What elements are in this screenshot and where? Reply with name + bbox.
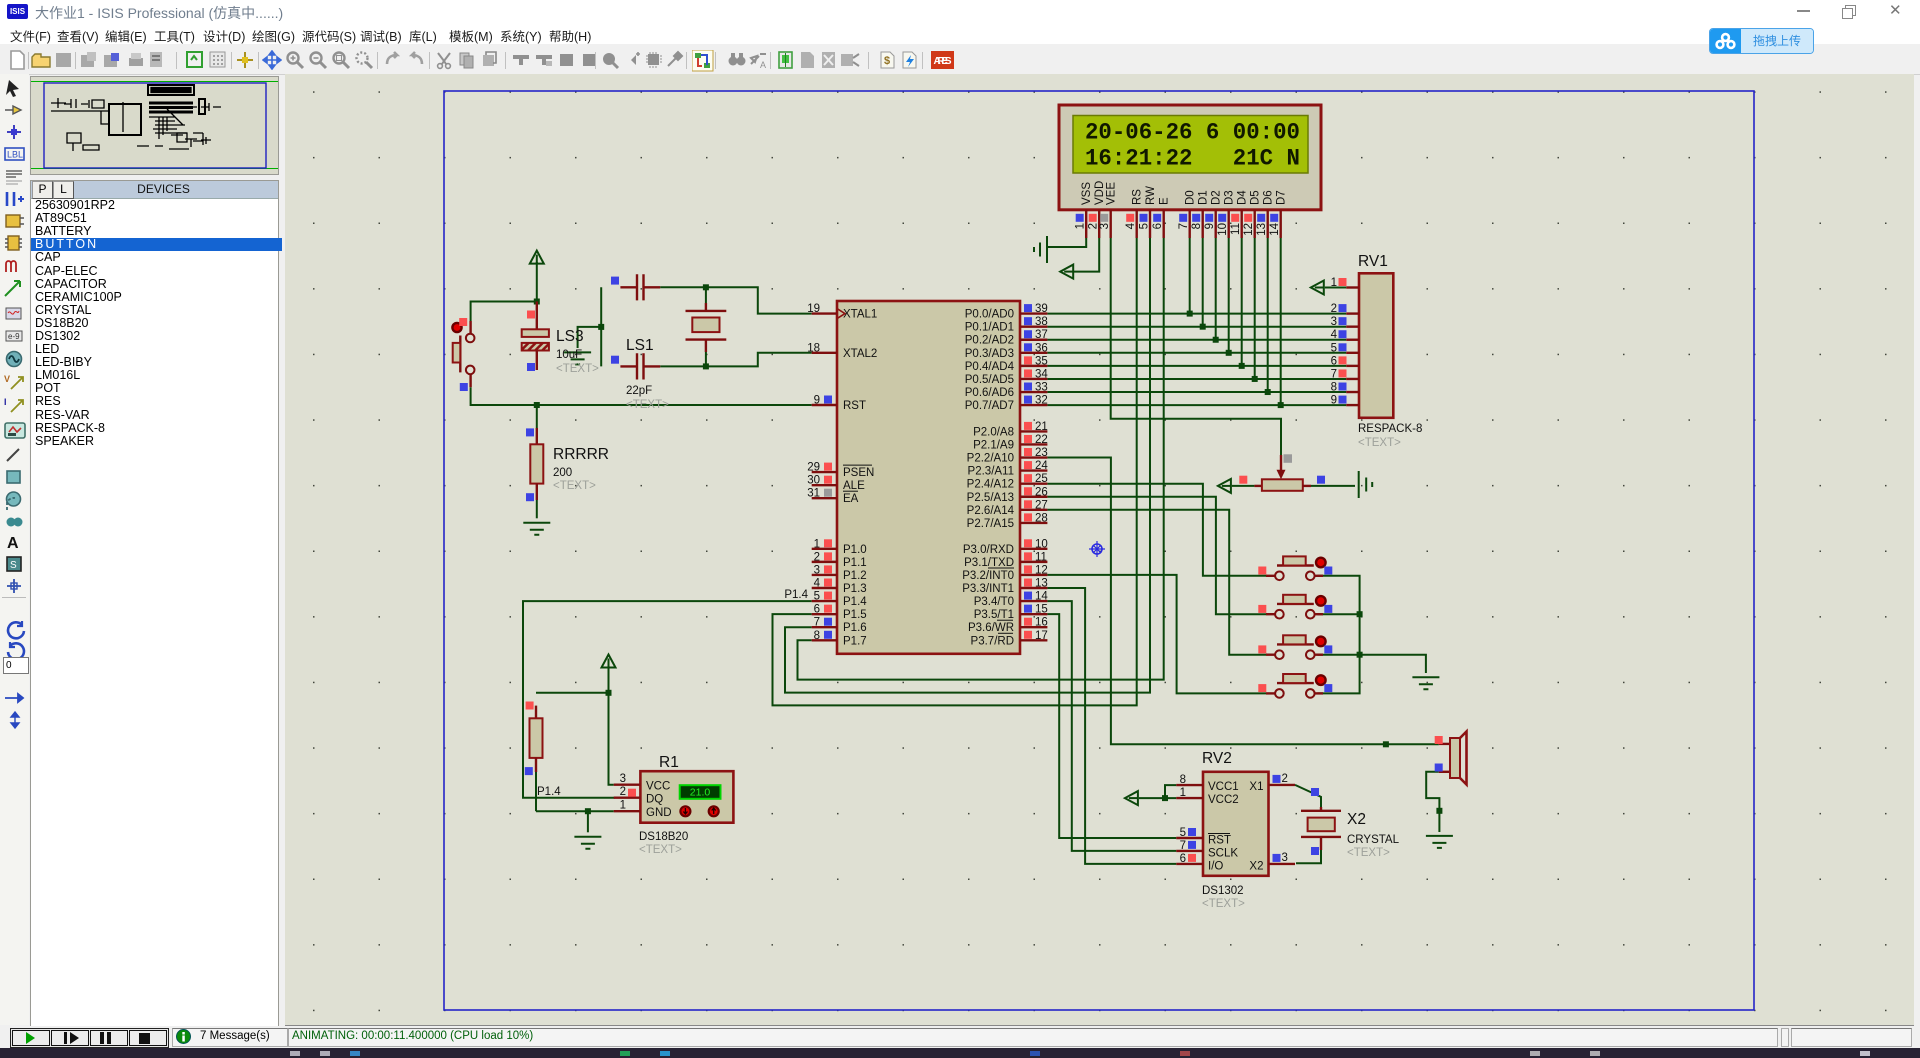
LCD pin 12 D5 [1253,210,1255,238]
wire: P0.4 bus to RV1 pin 6 [1047,365,1346,367]
svg-text:P2.7/A15: P2.7/A15 [967,518,1014,530]
svg-text:6: 6 [1152,223,1164,229]
wire: P3.2 to button4 [1047,575,1266,694]
DS1302 pin 7 [1176,850,1203,852]
DS18B20 pin 1 [614,810,641,812]
LCD pin 3 VEE [1109,210,1111,238]
svg-text:RS: RS [1132,189,1144,205]
svg-text:23: 23 [1035,447,1048,459]
svg-text:D4: D4 [1237,190,1249,205]
svg-text:6: 6 [1331,355,1337,367]
wire: R pullup top to power [536,692,609,694]
pin 16 P3.6/WR [1020,626,1047,628]
LCD pin 1 VSS [1085,210,1087,238]
wire: DS1302 X1 to crystal [1295,785,1321,807]
svg-text:<TEXT>: <TEXT> [556,363,599,375]
svg-text:33: 33 [1035,382,1048,394]
ground (RRRRR) [523,523,550,535]
RV1 pin 4 [1346,339,1359,341]
wire: LCD D6 to P0.6 [1267,238,1269,392]
ground (caps) [564,352,591,364]
svg-text:ALE: ALE [843,480,865,492]
svg-text:19: 19 [807,303,820,315]
svg-text:12: 12 [1035,564,1048,576]
RV1 pin 9 [1346,404,1359,406]
svg-text:5: 5 [814,591,820,603]
pin 13 P3.3/INT1 [1020,587,1047,589]
svg-text:1: 1 [1075,223,1087,229]
svg-text:V: V [4,374,10,384]
origin marker [1089,541,1105,557]
ground (LCD VSS) [1034,236,1047,263]
LCD pin 11 D4 [1240,210,1242,238]
button 2 [1258,595,1332,619]
svg-text:VCC1: VCC1 [1208,781,1239,793]
ground (pot, rotated) [1359,471,1373,498]
svg-text:R1: R1 [659,754,679,771]
pin 23 P2.2/A10 [1020,456,1047,458]
pin 19 XTAL1 [812,312,837,314]
svg-text:P1.5: P1.5 [843,609,867,621]
pin 25 P2.4/A12 [1020,482,1047,484]
wire: LCD RW to P1.6 [785,238,1150,693]
pin 3 P1.2 [812,574,837,576]
svg-text:10: 10 [1035,538,1048,550]
wire: P0.1 bus to RV1 pin 3 [1047,326,1346,328]
svg-text:22pF: 22pF [626,385,652,397]
svg-text:A: A [760,60,766,70]
pin 1 P1.0 [812,548,837,550]
DS18B20 R1 [614,754,734,856]
DS18B20 pin 2 [614,797,641,799]
svg-text:P3.2/INT0: P3.2/INT0 [962,570,1014,582]
svg-text:P3.3/INT1: P3.3/INT1 [962,583,1014,595]
svg-text:P2.3/A11: P2.3/A11 [968,466,1014,478]
svg-text:7: 7 [1331,368,1337,380]
LCD pin 14 D7 [1279,210,1281,238]
svg-text:<TEXT>: <TEXT> [639,844,682,856]
svg-text:10: 10 [1217,223,1229,236]
resistor R pullup [525,702,543,776]
svg-text:5: 5 [1139,223,1151,229]
svg-text:38: 38 [1035,316,1048,328]
wire: P0.7 bus to RV1 pin 9 [1047,404,1346,406]
svg-text:27: 27 [1035,499,1048,511]
ground (DS18B20) [574,837,601,849]
wire: LCD VSS to ground [1047,238,1086,247]
wire: P3.3 to DS1302 I/O [1047,588,1176,864]
RV1 pin 6 [1346,365,1359,367]
svg-text:15: 15 [1035,604,1048,616]
pin 29 PSEN [812,471,837,473]
svg-text:13: 13 [1035,578,1048,590]
svg-text:2: 2 [1282,773,1288,785]
svg-text:2: 2 [814,551,820,563]
svg-text:P1.1: P1.1 [843,557,867,569]
power arrow (VDD) [1060,265,1073,279]
svg-text:P1.3: P1.3 [843,583,867,595]
svg-text:5: 5 [1331,342,1337,354]
wire: P0.5 bus to RV1 pin 7 [1047,378,1346,380]
wire: P2.5 to button2 [1047,497,1266,614]
svg-text:D2: D2 [1211,190,1223,205]
svg-text:LBL: LBL [7,150,23,160]
wire: LCD RS to P1.5 [773,238,1137,705]
svg-text:17: 17 [1035,630,1048,642]
svg-text:X1: X1 [1249,781,1263,793]
svg-text:P3.1/TXD: P3.1/TXD [964,557,1014,569]
AT89C51 U1 body [807,301,1048,654]
svg-text:EA: EA [843,493,859,505]
svg-text:8: 8 [1331,382,1337,394]
svg-text:21: 21 [1035,421,1048,433]
svg-text:4: 4 [1125,222,1137,229]
svg-text:P0.0/AD0: P0.0/AD0 [965,309,1014,321]
wire: DS18B20 GND [536,810,614,812]
svg-text:E: E [1159,197,1171,205]
svg-text:VEE: VEE [1106,182,1118,205]
resistor RRRRR 200 [526,428,609,501]
pin 32 P0.7/AD7 [1020,404,1047,406]
pin 14 P3.4/T0 [1020,600,1047,602]
RV1 pin 3 [1346,325,1359,327]
svg-text:4: 4 [814,578,821,590]
button 3 [1258,635,1332,659]
wire: LCD VDD to power [1074,238,1099,272]
svg-text:8: 8 [1180,774,1186,786]
svg-text:36: 36 [1035,342,1048,354]
wire: LCD D7 to P0.7 [1280,238,1282,405]
pin 30 ALE [812,484,837,486]
svg-text:35: 35 [1035,355,1048,367]
svg-text:29: 29 [807,462,820,474]
wire: P3.5 to DS1302 RST [1047,614,1176,838]
svg-text:e-9: e-9 [8,332,20,341]
svg-text:P1.4: P1.4 [843,596,867,608]
wire: caps common + ground [600,287,602,366]
wire: crystal bottom / XTAL2 [660,353,812,367]
svg-text:12: 12 [1243,223,1255,236]
svg-text:A: A [7,535,19,552]
svg-text:P1.7: P1.7 [843,635,867,647]
RV1 pin 8 [1346,391,1359,393]
RV1 pin 2 [1346,312,1359,314]
svg-text:P1.2: P1.2 [843,570,867,582]
svg-text:P2.6/A14: P2.6/A14 [967,505,1015,517]
svg-text:RRRRR: RRRRR [553,446,609,463]
svg-text:2: 2 [1331,303,1337,315]
svg-text:RESPACK-8: RESPACK-8 [1358,423,1422,435]
wire: pullup bottom [535,758,537,811]
svg-text:X2: X2 [1249,861,1263,873]
capacitor C-top 22pF [611,274,660,300]
svg-text:DQ: DQ [646,794,663,806]
svg-text:P3.0/RXD: P3.0/RXD [963,544,1014,556]
svg-text:I/O: I/O [1208,861,1223,873]
pin 31 EA [812,497,837,499]
capacitor LS3 10uF [522,302,599,376]
svg-text:9: 9 [1331,395,1337,407]
wire: LCD D0 to P0.0 [1189,238,1191,314]
pin 8 P1.7 [812,639,837,641]
svg-text:11: 11 [1035,551,1047,563]
svg-text:PSEN: PSEN [843,467,874,479]
RV1 pin 5 [1346,352,1359,354]
ground (speaker) [1426,836,1453,848]
svg-text:P2.4/A12: P2.4/A12 [967,479,1014,491]
svg-text:20-06-26 6 00:00: 20-06-26 6 00:00 [1085,120,1300,146]
svg-text:P3.7/RD: P3.7/RD [971,635,1014,647]
svg-text:1: 1 [620,800,626,812]
svg-text:P3.4/T0: P3.4/T0 [974,596,1014,608]
svg-text:P0.6/AD6: P0.6/AD6 [965,387,1014,399]
svg-text:6: 6 [814,604,820,616]
pin 10 P3.0/RXD [1020,548,1047,550]
power arrow (reset VCC) [530,251,544,264]
wire: button bottom to RST node [471,387,537,405]
svg-text:37: 37 [1035,329,1048,341]
DS1302 pin 3 [1269,863,1296,865]
svg-text:P2.5/A13: P2.5/A13 [967,492,1014,504]
wire: node to RRRRR and ground [536,405,538,428]
wire: crystal top / XTAL1 [660,287,812,313]
svg-text:RST: RST [843,400,866,412]
svg-text:9: 9 [1204,223,1216,229]
svg-text:10uF: 10uF [556,349,582,361]
svg-text:<TEXT>: <TEXT> [626,399,669,411]
DS1302 pin 8 [1176,784,1203,786]
capacitor LS1 22pF [611,337,669,411]
svg-text:6: 6 [1180,853,1186,865]
pin 24 P2.3/A11 [1020,469,1047,471]
svg-text:P3.6/WR: P3.6/WR [968,622,1014,634]
svg-text:LS3: LS3 [556,328,584,345]
svg-text:D7: D7 [1276,190,1288,205]
svg-text:8: 8 [1191,223,1203,229]
svg-text:P2.1/A9: P2.1/A9 [973,439,1014,451]
svg-text:26: 26 [1035,486,1048,498]
svg-text:30: 30 [807,475,820,487]
svg-text:D5: D5 [1250,190,1262,205]
pin 38 P0.1/AD1 [1020,325,1047,327]
pin 33 P0.6/AD6 [1020,391,1047,393]
button (reset) [452,318,474,391]
wire: crystal X2 bottom to DS1302 [1296,850,1321,863]
pin 18 XTAL2 [812,352,837,354]
svg-text:X2: X2 [1347,811,1366,828]
svg-text:P0.1/AD1: P0.1/AD1 [965,322,1014,334]
pin 9 RST [812,404,837,406]
svg-text:3: 3 [620,773,626,785]
svg-text:2: 2 [1088,223,1100,229]
svg-text:P3.5/T1: P3.5/T1 [974,609,1014,621]
svg-text:16:21:22 21C N: 16:21:22 21C N [1085,146,1300,172]
wire: P0.2 bus to RV1 pin 4 [1047,339,1346,341]
svg-text:3: 3 [1282,852,1288,864]
svg-text:DS1302: DS1302 [1202,885,1244,897]
pin 26 P2.5/A13 [1020,496,1047,498]
wire: LCD VEE to pot wiper [1111,238,1281,455]
DS1302 RV2 [1176,750,1295,910]
LCD LM016L [1059,105,1321,238]
sheet border [444,91,1754,1010]
svg-text:VSS: VSS [1081,182,1093,205]
DS1302 pin 6 [1176,863,1203,865]
pin 21 P2.0/A8 [1020,430,1047,432]
svg-text:S: S [10,560,17,571]
crystal X1 [686,303,727,352]
pin 27 P2.6/A14 [1020,509,1047,511]
pin 5 P1.4 [812,600,837,602]
svg-text:28: 28 [1035,512,1048,524]
RV1 pin 1 [1346,286,1359,288]
svg-text:2: 2 [620,786,626,798]
wire: LCD D2 to P0.2 [1215,238,1217,340]
svg-text:4: 4 [1331,329,1338,341]
svg-text:P0.2/AD2: P0.2/AD2 [965,335,1014,347]
svg-text:5: 5 [1180,827,1186,839]
svg-text:P0.4/AD4: P0.4/AD4 [965,361,1015,373]
svg-text:P0.3/AD3: P0.3/AD3 [965,348,1014,360]
svg-text:P2.2/A10: P2.2/A10 [967,453,1014,465]
LCD pin 6 E [1162,210,1164,238]
svg-text:16: 16 [1035,617,1048,629]
svg-text:39: 39 [1035,303,1048,315]
pin 39 P0.0/AD0 [1020,312,1047,314]
svg-text:25: 25 [1035,473,1048,485]
pin 34 P0.5/AD5 [1020,378,1047,380]
svg-text:7: 7 [1180,840,1186,852]
svg-text:P1.4: P1.4 [537,786,561,798]
svg-text:8: 8 [814,630,820,642]
svg-text:P2.0/A8: P2.0/A8 [973,426,1014,438]
svg-text:200: 200 [553,467,572,479]
wire: LCD E to P1.7 [798,238,1164,680]
pin 11 P3.1/TXD [1020,561,1047,563]
pin 28 P2.7/A15 [1020,522,1047,524]
pin 12 P3.2/INT0 [1020,574,1047,576]
svg-text:D3: D3 [1224,190,1236,205]
LCD pin 5 RW [1149,210,1151,238]
svg-text:I: I [4,397,7,407]
svg-text:24: 24 [1035,460,1048,472]
svg-text:7: 7 [1178,223,1190,229]
svg-text:RW: RW [1145,186,1157,205]
wire: P1.4 net to DS18B20 DQ [523,601,812,798]
pin 7 P1.6 [812,626,837,628]
svg-text:LS1: LS1 [626,337,654,354]
svg-text:13: 13 [1256,223,1268,236]
power arrow (DS1302 VCC) [1125,791,1138,805]
wire: LCD D3 to P0.3 [1228,238,1230,353]
wire: P2.6 to button3 [1047,510,1266,655]
svg-text:P1.6: P1.6 [843,622,867,634]
DS1302 pin 1 [1176,797,1203,799]
svg-text:21.0: 21.0 [690,787,711,799]
svg-text:22: 22 [1035,434,1048,446]
svg-text:P0.5/AD5: P0.5/AD5 [965,374,1014,386]
button 1 [1258,556,1332,580]
ground (buttons) [1412,677,1439,689]
LCD pin 10 D3 [1227,210,1229,238]
wire: LCD D1 to P0.1 [1202,238,1204,327]
svg-text:P1.0: P1.0 [843,544,867,556]
svg-text:XTAL2: XTAL2 [843,348,877,360]
speaker LS2 [1435,732,1467,785]
LCD pin 9 D2 [1214,210,1216,238]
svg-text:7: 7 [814,617,820,629]
svg-text:<TEXT>: <TEXT> [1358,437,1401,449]
resistor pack RV1 RESPACK-8 [1311,253,1423,449]
svg-text:1: 1 [1180,787,1186,799]
svg-text:D0: D0 [1185,190,1197,205]
svg-text:34: 34 [1035,368,1048,380]
svg-text:$: $ [884,55,890,67]
svg-text:3: 3 [1331,316,1337,328]
pin 37 P0.2/AD2 [1020,339,1047,341]
wire: P0.3 bus to RV1 pin 5 [1047,352,1346,354]
pin 15 P3.5/T1 [1020,613,1047,615]
button 4 [1258,674,1332,698]
svg-text:D1: D1 [1198,190,1210,205]
pin 6 P1.5 [812,613,837,615]
DS1302 pin 5 [1176,837,1203,839]
svg-text:9: 9 [814,395,820,407]
pin 35 P0.4/AD4 [1020,365,1047,367]
wire: pot right to ground [1311,485,1355,487]
wire: P3.4 to DS1302 SCLK [1047,601,1176,851]
svg-text:3: 3 [814,564,820,576]
svg-text:VDD: VDD [1094,181,1106,205]
wire: P2.4 to button1 [1047,484,1266,576]
wire: P2.2 to speaker [1047,458,1438,745]
wire: buttons common to ground [1318,576,1360,694]
svg-text:<TEXT>: <TEXT> [1347,847,1390,859]
potentiometer (contrast) [1239,454,1325,491]
LCD pin 2 VDD [1098,210,1100,238]
svg-text:14: 14 [1269,222,1281,235]
svg-text:14: 14 [1035,591,1048,603]
svg-text:RST: RST [1208,835,1231,847]
LCD pin 8 D1 [1201,210,1203,238]
crystal X2 [1301,788,1400,859]
RV1 pin 7 [1346,378,1359,380]
svg-text:SCLK: SCLK [1208,848,1238,860]
svg-text:GND: GND [646,807,672,819]
svg-text:CRYSTAL: CRYSTAL [1347,834,1400,846]
pin 36 P0.3/AD3 [1020,352,1047,354]
svg-text:RV2: RV2 [1202,750,1232,767]
LCD pin 4 RS [1135,210,1137,238]
wire: speaker bottom to ground [1426,772,1439,832]
svg-text:31: 31 [807,488,820,500]
wire: LCD D4 to P0.4 [1241,238,1243,366]
svg-text:RV1: RV1 [1358,253,1388,270]
DS1302 pin 2 [1269,784,1296,786]
svg-text:DS18B20: DS18B20 [639,831,688,843]
svg-text:<TEXT>: <TEXT> [553,480,596,492]
wire: LCD D5 to P0.5 [1254,238,1256,379]
svg-text:VCC: VCC [646,781,670,793]
svg-text:32: 32 [1035,395,1048,407]
svg-text:18: 18 [807,342,820,354]
svg-text:11: 11 [1230,223,1242,235]
svg-text:<TEXT>: <TEXT> [1202,898,1245,910]
DS18B20 pin 3 [614,784,641,786]
pin 17 P3.7/RD [1020,639,1047,641]
pin 2 P1.1 [812,561,837,563]
power arrow (DS18B20) [602,655,616,668]
